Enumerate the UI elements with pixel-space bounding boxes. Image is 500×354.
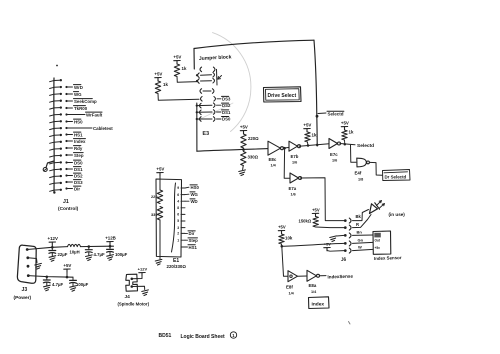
svg-text:WG: WG bbox=[191, 192, 199, 197]
svg-text:Drive Select: Drive Select bbox=[268, 93, 297, 99]
svg-text:+5V: +5V bbox=[156, 167, 164, 172]
buffer E8f bbox=[288, 271, 298, 282]
resistor 330 ohm bbox=[241, 152, 246, 166]
connector J4 body bbox=[126, 274, 138, 291]
J1 signal stub WG bbox=[65, 93, 67, 95]
svg-text:J1: J1 bbox=[63, 199, 69, 205]
svg-text:Out: Out bbox=[375, 239, 381, 243]
J1 signal stub Cabletest bbox=[65, 127, 67, 129]
connector J3 body bbox=[17, 245, 36, 283]
svg-text:330Ω: 330Ω bbox=[248, 155, 259, 160]
svg-text:TkR00: TkR00 bbox=[74, 106, 88, 111]
svg-text:4.7µF: 4.7µF bbox=[94, 252, 105, 257]
wire E8a out bbox=[320, 275, 326, 277]
J1 right pin 8 bbox=[54, 127, 60, 129]
J1 right pin 13 bbox=[54, 161, 60, 163]
J1 left tick 16 bbox=[50, 183, 54, 184]
svg-text:330: 330 bbox=[151, 212, 158, 217]
E1 label HS0 bbox=[185, 186, 189, 189]
svg-text:1k: 1k bbox=[163, 82, 168, 87]
Drive Select boxed label bbox=[264, 87, 302, 102]
svg-text:WD: WD bbox=[191, 199, 198, 204]
J1 right pin 1 bbox=[54, 79, 60, 81]
wire E1 internal to ground bbox=[159, 220, 161, 259]
svg-text:Bn: Bn bbox=[357, 230, 363, 235]
svg-text:SeekComp: SeekComp bbox=[74, 99, 97, 104]
svg-text:WG: WG bbox=[74, 92, 82, 97]
svg-text:(in use): (in use) bbox=[389, 212, 406, 217]
jumper DS1 shunt bbox=[196, 111, 198, 113]
svg-text:1: 1 bbox=[177, 238, 179, 242]
J1 left tick 5 bbox=[50, 108, 54, 109]
svg-text:220Ω: 220Ω bbox=[248, 136, 259, 141]
ground (E1) bbox=[155, 259, 162, 261]
index sensor box bbox=[373, 231, 391, 254]
svg-text:100µF: 100µF bbox=[115, 252, 128, 257]
J1 left tick 3 bbox=[50, 94, 54, 95]
J1 right pin 5 bbox=[54, 107, 60, 109]
wire E8f to E8a bbox=[298, 275, 308, 277]
J1 signal stub WrD bbox=[65, 86, 67, 88]
J1 bottom pin bbox=[53, 191, 55, 193]
jumper row 1 pins bbox=[200, 67, 202, 72]
svg-text:+5v: +5v bbox=[375, 246, 381, 250]
resistor 220 (E1) bbox=[157, 190, 162, 204]
svg-text:+5V: +5V bbox=[341, 121, 349, 126]
capacitor 100uF (5V) bbox=[72, 277, 74, 280]
svg-text:1/4: 1/4 bbox=[289, 292, 295, 296]
J1 signal stub DS2 bbox=[65, 174, 67, 176]
J1 left tick 6 bbox=[50, 115, 54, 116]
jumper arrow mark bbox=[218, 76, 222, 80]
svg-text:8: 8 bbox=[177, 206, 179, 210]
svg-text:Rdy: Rdy bbox=[74, 146, 83, 151]
jumper row 2 shunt bbox=[196, 74, 198, 76]
svg-text:6: 6 bbox=[177, 213, 179, 217]
wire +5V to E1 bbox=[159, 176, 161, 190]
svg-text:BD51: BD51 bbox=[159, 333, 172, 339]
J1 left tick 11 bbox=[50, 149, 54, 150]
resistor 220 ohm bbox=[241, 134, 246, 148]
J1 right pin 14 bbox=[54, 168, 60, 170]
svg-text:150kΩ: 150kΩ bbox=[299, 219, 312, 224]
J3 pin 4 bbox=[27, 274, 30, 277]
svg-text:E7b: E7b bbox=[291, 154, 299, 159]
J1 right pin 3 bbox=[54, 93, 60, 95]
svg-text:(Control): (Control) bbox=[58, 206, 79, 212]
svg-text:Cabletest: Cabletest bbox=[93, 126, 113, 131]
svg-text:1/6: 1/6 bbox=[332, 159, 337, 163]
svg-text:J6: J6 bbox=[341, 257, 347, 263]
svg-text:WrD: WrD bbox=[74, 85, 83, 90]
J1 left tick 13 bbox=[50, 163, 54, 164]
J3 pin 1 bbox=[26, 248, 29, 251]
E3 select bus wire bbox=[196, 103, 198, 151]
J1 left tick 1 bbox=[50, 81, 54, 82]
E1 pin 5 bbox=[181, 213, 185, 215]
svg-text:E8f: E8f bbox=[286, 285, 293, 290]
J1 right pin 15 bbox=[54, 175, 60, 177]
capacitor 4.7uF (5V) bbox=[46, 277, 48, 280]
svg-text:Bk: Bk bbox=[356, 214, 362, 219]
svg-text:1/8: 1/8 bbox=[358, 178, 363, 182]
inverter E7c bbox=[329, 139, 338, 149]
svg-text:(Spindle Motor): (Spindle Motor) bbox=[118, 302, 150, 307]
svg-text:DS2: DS2 bbox=[222, 103, 231, 108]
svg-text:4.7µF: 4.7µF bbox=[52, 282, 63, 287]
J1 ground stub bbox=[46, 161, 54, 167]
wire J3 pin4 +5V rail bbox=[28, 276, 73, 278]
jumper right-side common wire bbox=[216, 69, 219, 85]
svg-text:100µF: 100µF bbox=[76, 282, 89, 287]
svg-text:+5V: +5V bbox=[173, 55, 181, 60]
drive select block outline bbox=[194, 40, 314, 48]
svg-text:+5V: +5V bbox=[63, 263, 71, 268]
jumper DS3 bbox=[201, 97, 203, 102]
J1 left tick 12 bbox=[50, 156, 54, 157]
J1 signal stub Index bbox=[65, 140, 67, 142]
J1 signal stub DS0 bbox=[65, 161, 67, 163]
jumper row 4 shunt bbox=[200, 89, 202, 94]
wire J6 pin3 to sensor bbox=[353, 234, 374, 236]
svg-text:22µF: 22µF bbox=[58, 252, 68, 257]
J3 pin 2 bbox=[26, 256, 29, 259]
E1 pin 4 bbox=[181, 207, 185, 209]
svg-text:E8c: E8c bbox=[269, 157, 277, 162]
J1 right pin 11 bbox=[54, 148, 60, 150]
wire R1k to jumper row3 bbox=[177, 77, 197, 83]
wire 10k down to E8f bbox=[282, 246, 288, 276]
J3 pin2 ground stub bbox=[28, 258, 37, 263]
ground (J6 pin3) bbox=[330, 236, 337, 238]
J1 left tick 2 bbox=[50, 87, 54, 88]
J1 right pin 12 bbox=[54, 155, 60, 157]
J1 right pin 9 bbox=[54, 134, 60, 136]
J1 signal stub WrFault bbox=[65, 113, 67, 115]
svg-text:+12V: +12V bbox=[48, 236, 58, 241]
svg-text:HS1: HS1 bbox=[189, 245, 198, 250]
svg-text:DS3: DS3 bbox=[222, 96, 231, 101]
svg-text:DS1: DS1 bbox=[74, 167, 83, 172]
svg-text:1/6: 1/6 bbox=[291, 193, 296, 197]
main select wire bbox=[197, 149, 268, 152]
svg-text:5: 5 bbox=[177, 219, 179, 223]
E1 pin 6 bbox=[181, 220, 185, 222]
J1 signal stub SeekComp bbox=[65, 100, 67, 102]
svg-text:1k: 1k bbox=[349, 130, 354, 135]
J1 pin-1 mark bbox=[56, 65, 58, 67]
svg-text:Dir: Dir bbox=[189, 231, 195, 236]
svg-text:Step: Step bbox=[74, 153, 84, 158]
E1 inner resistor column bbox=[172, 183, 176, 252]
J1 right pin 7 bbox=[54, 120, 60, 122]
E1 label WG bbox=[185, 193, 189, 195]
E1 pin 3 bbox=[181, 200, 185, 202]
J4 pin 2 bbox=[131, 285, 134, 288]
svg-text:+5V: +5V bbox=[278, 225, 286, 230]
jumper DS0 shunt bbox=[196, 118, 198, 120]
ground (J4) bbox=[142, 290, 149, 292]
inductor 10uH bbox=[52, 246, 67, 249]
svg-text:HS1: HS1 bbox=[74, 132, 83, 137]
J1 right pin 10 bbox=[54, 141, 60, 143]
wire 150k to J6 pin2 bbox=[316, 226, 344, 229]
svg-text:Dr Selectd: Dr Selectd bbox=[385, 175, 407, 180]
wire J4 pin1 bbox=[132, 276, 142, 279]
wire E7c out / Selectd bbox=[340, 144, 355, 145]
svg-text:DS1: DS1 bbox=[222, 110, 231, 115]
svg-text:+5V: +5V bbox=[324, 242, 332, 247]
E1 pin 10 bbox=[181, 246, 185, 248]
J6 pin 1 bbox=[344, 219, 347, 222]
J6 pin 4 bbox=[344, 242, 347, 245]
svg-text:J4: J4 bbox=[125, 294, 131, 300]
J1 signal stub Step bbox=[65, 154, 67, 156]
svg-text:(Power): (Power) bbox=[14, 295, 32, 301]
inverter E8c bbox=[268, 141, 281, 155]
svg-text:+5V: +5V bbox=[303, 123, 311, 128]
svg-text:+12B: +12B bbox=[105, 236, 116, 241]
capacitor 100uF (12V) bbox=[109, 246, 111, 249]
inverter E7b bbox=[289, 141, 298, 151]
wire J6 pin4 to sensor bbox=[353, 242, 374, 243]
wire J4 pin2 to ground bbox=[132, 286, 145, 289]
svg-text:DS2: DS2 bbox=[74, 173, 83, 178]
J1 left tick 17 bbox=[50, 190, 54, 191]
ground (terminator) bbox=[242, 166, 245, 170]
svg-text:3: 3 bbox=[177, 226, 179, 230]
svg-text:R: R bbox=[356, 222, 359, 227]
E1 label HS1 bbox=[185, 246, 188, 248]
svg-text:1k: 1k bbox=[182, 66, 187, 71]
E1 pin 9 bbox=[181, 239, 185, 241]
wire J3 pin1 +12V rail bbox=[27, 247, 52, 249]
J6 pin 2 bbox=[344, 226, 347, 229]
net label Selectd bbox=[316, 115, 319, 118]
svg-text:+5V: +5V bbox=[240, 125, 248, 130]
svg-text:W: W bbox=[358, 245, 362, 250]
jumper row 3 shunt bbox=[196, 80, 198, 82]
resistor pack E1 box bbox=[156, 179, 182, 257]
J1 left tick 7 bbox=[50, 122, 54, 123]
ground (J1) bbox=[43, 168, 47, 172]
buffer E8a bbox=[307, 270, 317, 281]
svg-text:DS0: DS0 bbox=[222, 117, 231, 122]
svg-text:10µH: 10µH bbox=[70, 250, 80, 255]
wire J6 pin1 to LED bbox=[353, 210, 369, 221]
J1 left tick 8 bbox=[50, 128, 54, 129]
E1 pin 8 bbox=[181, 232, 185, 234]
svg-text:Selectd: Selectd bbox=[357, 143, 374, 149]
inverter E7a bbox=[290, 173, 299, 183]
J1 left tick 4 bbox=[50, 101, 54, 102]
wire E7b to E7c bbox=[299, 144, 329, 146]
J1 right pin 6 bbox=[54, 114, 60, 116]
J1 right pin 2 bbox=[54, 86, 60, 88]
J6 pin 5 bbox=[344, 249, 347, 252]
svg-text:E3: E3 bbox=[202, 131, 209, 137]
svg-text:E8a: E8a bbox=[309, 283, 317, 288]
faint pencil circle arc bbox=[213, 33, 251, 132]
J1 right pin 17 bbox=[54, 189, 60, 191]
svg-text:Logic Board Sheet: Logic Board Sheet bbox=[181, 334, 226, 340]
svg-text:220: 220 bbox=[151, 194, 158, 199]
J1 signal stub HS1 bbox=[65, 133, 67, 135]
svg-text:WrFault: WrFault bbox=[86, 112, 103, 117]
svg-text:Index: Index bbox=[312, 302, 325, 308]
J1 right pin 16 bbox=[54, 182, 60, 184]
J4 pin 1 bbox=[131, 278, 134, 281]
E1 label Step bbox=[185, 239, 188, 241]
svg-text:DS3: DS3 bbox=[74, 180, 83, 185]
J1 signal stub Dir bbox=[65, 187, 67, 189]
wire J6 pin5 to sensor bbox=[353, 249, 374, 250]
svg-text:+5V: +5V bbox=[154, 72, 162, 77]
svg-text:9: 9 bbox=[177, 186, 179, 190]
J1 signal stub HS0 bbox=[65, 120, 67, 122]
E1 pin 1 bbox=[181, 187, 185, 189]
wire E7a to J6 pin1 bbox=[300, 178, 344, 221]
J3 pin 3 bbox=[27, 265, 30, 268]
net label Dr Selectd bbox=[383, 170, 411, 181]
svg-text:Dir: Dir bbox=[74, 186, 80, 191]
svg-text:E7a: E7a bbox=[289, 186, 297, 191]
svg-text:J3: J3 bbox=[22, 287, 28, 293]
LED (in use) bbox=[370, 204, 378, 214]
svg-text:Selectd: Selectd bbox=[328, 112, 344, 117]
svg-text:Gn: Gn bbox=[358, 238, 364, 243]
svg-text:HS0: HS0 bbox=[191, 185, 200, 190]
svg-text:1k: 1k bbox=[312, 133, 317, 138]
wire inductor to +12B bbox=[81, 245, 114, 247]
capacitor 22uF bbox=[51, 247, 53, 250]
svg-text:DS0: DS0 bbox=[74, 160, 83, 165]
svg-text:E7c: E7c bbox=[330, 152, 338, 157]
svg-text:E4f: E4f bbox=[355, 171, 362, 176]
E1 pin 2 bbox=[181, 194, 185, 196]
J1 left tick 15 bbox=[50, 176, 54, 177]
wire to E4f bbox=[351, 145, 357, 162]
J1 signal stub Rdy bbox=[65, 147, 67, 149]
J1 signal stub DS1 bbox=[65, 168, 67, 170]
jumper DS2 shunt bbox=[196, 104, 198, 106]
svg-text:10k: 10k bbox=[285, 236, 293, 241]
wire R1k2 to DS jumper row bbox=[158, 94, 199, 101]
J6 pin 3 bbox=[344, 234, 347, 237]
J1 left tick 9 bbox=[50, 135, 54, 136]
svg-text:Index Sensor: Index Sensor bbox=[374, 255, 402, 261]
J1 left tick 14 bbox=[50, 170, 54, 171]
wire E8c out down to E7a bbox=[284, 149, 290, 179]
wire E4f out bbox=[370, 162, 383, 175]
svg-text:4: 4 bbox=[177, 199, 179, 203]
svg-text:6: 6 bbox=[177, 193, 179, 197]
svg-text:1/6: 1/6 bbox=[292, 161, 297, 165]
resistor 330 (E1) bbox=[157, 207, 162, 221]
wire E8c out bbox=[283, 146, 289, 149]
svg-text:1/4: 1/4 bbox=[271, 164, 277, 168]
stray mark bbox=[349, 322, 351, 325]
svg-text:IndexSense: IndexSense bbox=[327, 274, 353, 280]
svg-text:+5V: +5V bbox=[312, 207, 320, 212]
svg-text:+12V: +12V bbox=[138, 267, 148, 272]
buffer E4f bbox=[357, 158, 367, 167]
capacitor 4.7uF (12V) bbox=[88, 247, 90, 250]
E1 label WD bbox=[185, 200, 189, 202]
wire J6 pin2 to LED cathode bbox=[353, 215, 372, 228]
svg-text:Step: Step bbox=[189, 238, 199, 243]
E1 label Dir bbox=[185, 232, 188, 234]
E1 pin 7 bbox=[181, 227, 185, 229]
connector J1 body bbox=[53, 78, 55, 193]
wire 10k to J6 pin4 bbox=[282, 243, 344, 246]
J1 left tick 10 bbox=[50, 142, 54, 143]
svg-text:1/4: 1/4 bbox=[311, 290, 317, 294]
J1 signal stub DS3 bbox=[65, 181, 67, 183]
svg-text:2: 2 bbox=[177, 232, 179, 236]
svg-text:Index: Index bbox=[74, 139, 86, 144]
J1 signal stub TkR00 bbox=[65, 107, 67, 109]
wire 10k junction bbox=[281, 245, 284, 248]
J1 right pin 4 bbox=[54, 100, 60, 102]
Index boxed label bbox=[309, 297, 330, 309]
svg-text:HS0: HS0 bbox=[74, 119, 83, 124]
svg-text:220/330Ω: 220/330Ω bbox=[167, 264, 187, 269]
faint pencil diagonal bbox=[197, 103, 233, 121]
